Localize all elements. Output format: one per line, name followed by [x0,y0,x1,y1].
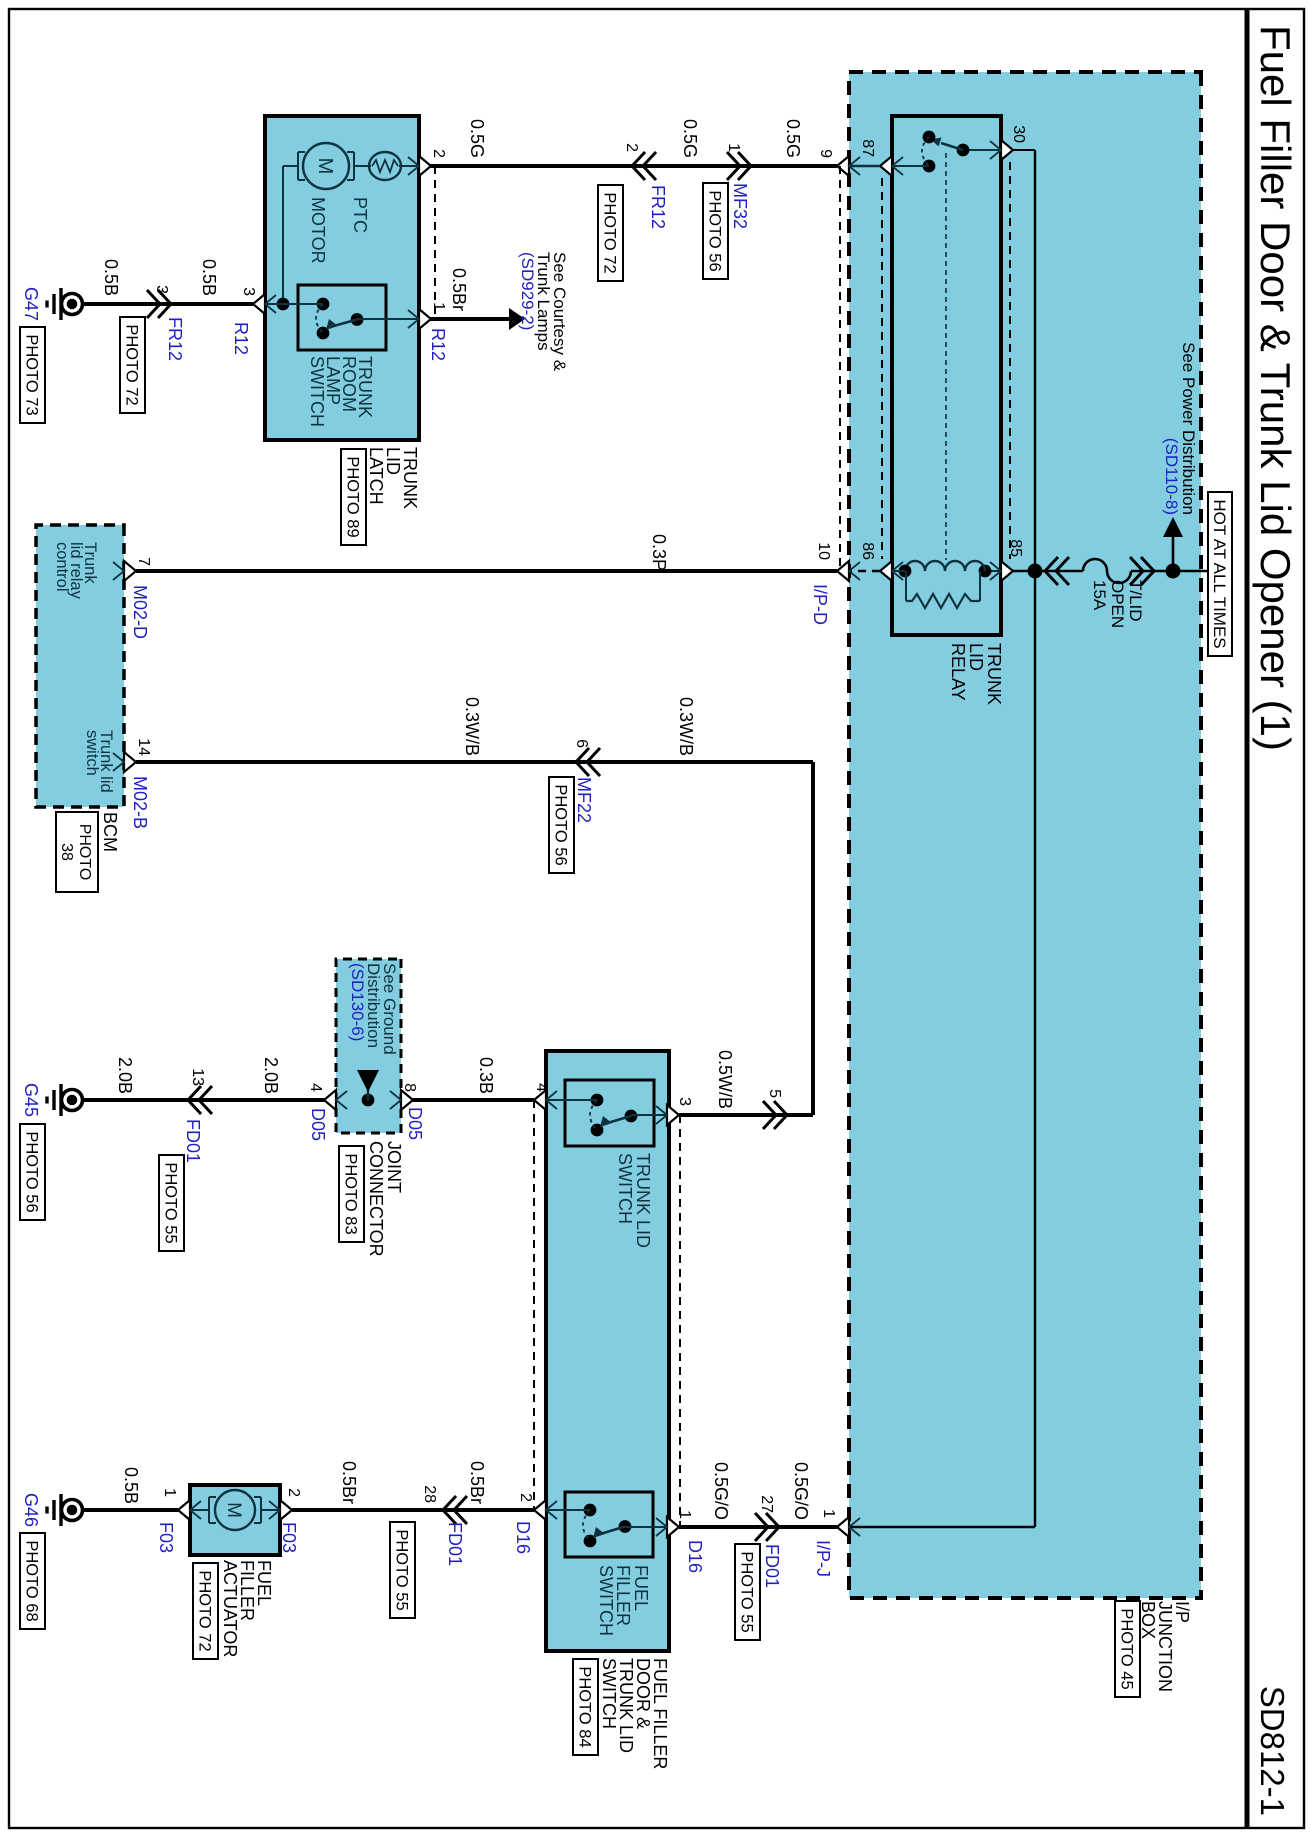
connector link R12 pins 2-1 [434,166,436,319]
svg-text:control: control [53,542,71,592]
svg-text:14: 14 [135,738,152,756]
svg-text:0.5B: 0.5B [199,259,219,296]
svg-text:FD01: FD01 [183,1119,203,1163]
wire relay pin 86 to junction box pin 10 (dashed) [849,570,880,572]
svg-text:13: 13 [189,1068,206,1086]
svg-text:7: 7 [135,557,152,566]
see power distribution arrow [1172,531,1175,571]
svg-text:LATCH: LATCH [366,447,386,505]
trunk lid latch box [265,116,419,440]
svg-text:G45: G45 [21,1083,41,1117]
photo ref PHOTO 56 [549,777,574,873]
svg-text:27: 27 [758,1495,775,1513]
wire 0.5Br (switch pin 2 to fuel filler actuator pin 2) [292,1508,534,1512]
svg-text:TRUNK: TRUNK [984,643,1004,705]
svg-text:0.5G/O: 0.5G/O [791,1462,811,1520]
svg-text:RELAY: RELAY [948,643,968,701]
svg-text:0.5W/B: 0.5W/B [715,1050,735,1109]
wire 0.5G (pin 9 to latch pin 2) [430,164,837,168]
svg-text:OPEN: OPEN [1108,580,1127,628]
svg-text:6: 6 [573,739,590,748]
svg-text:0.5B: 0.5B [101,259,121,296]
svg-text:4: 4 [533,1083,550,1092]
BCM pin 7 [124,561,136,581]
trunk lid relay box [892,116,1001,635]
photo ref PHOTO 55 [735,1544,760,1640]
ground G47 [81,302,84,306]
svg-text:D16: D16 [685,1540,705,1573]
trunk lid switch inner box [565,1080,654,1146]
svg-text:PHOTO 72: PHOTO 72 [601,192,619,273]
wire 0.5G/O (I/P-J pin 1 to fuel filler switch pin 1) [679,1525,837,1529]
switch pin 3 [667,1105,679,1125]
connector FR12 pin 2 [632,152,645,180]
photo ref PHOTO 72 [193,1563,218,1659]
svg-text:I/P-D: I/P-D [810,584,830,625]
svg-text:(SD110-8): (SD110-8) [1162,438,1181,515]
svg-text:2: 2 [517,1493,534,1502]
svg-text:1: 1 [676,1510,693,1519]
svg-text:CONNECTOR: CONNECTOR [366,1141,386,1257]
I/P junction box [849,72,1201,1598]
switch pin 4 [534,1090,546,1110]
svg-text:0.5Br: 0.5Br [467,1461,487,1504]
svg-text:M02-B: M02-B [130,776,150,829]
relay pin 85 [1001,561,1013,581]
joint connector pin 8 [401,1090,413,1110]
photo ref PHOTO 68 [20,1533,45,1629]
svg-text:4: 4 [307,1083,324,1092]
svg-text:TRUNK LID: TRUNK LID [633,1153,653,1248]
svg-text:0.5G: 0.5G [783,119,803,158]
svg-text:PHOTO 56: PHOTO 56 [706,190,724,271]
svg-text:FR12: FR12 [648,185,668,229]
svg-text:5: 5 [766,1089,783,1098]
svg-text:PHOTO 56: PHOTO 56 [552,784,570,865]
actuator pin 2 [280,1500,292,1520]
svg-text:2: 2 [623,143,640,152]
svg-text:SD812-1: SD812-1 [1254,1686,1291,1816]
svg-text:MOTOR: MOTOR [308,197,328,264]
svg-text:2: 2 [430,149,447,158]
svg-text:FUEL: FUEL [631,1565,651,1611]
svg-text:10: 10 [815,542,832,560]
svg-text:PHOTO 56: PHOTO 56 [23,1131,41,1212]
svg-text:MF32: MF32 [730,183,750,229]
svg-text:PHOTO 55: PHOTO 55 [738,1551,756,1632]
svg-text:T/LID: T/LID [1126,580,1145,622]
relay coil [985,570,1001,572]
latch pin 1 [419,309,431,329]
latch pin 3 [253,294,265,314]
photo ref PHOTO 56 [20,1124,45,1220]
svg-text:(SD929-2): (SD929-2) [518,252,537,330]
svg-text:F03: F03 [279,1522,299,1553]
svg-text:PHOTO 72: PHOTO 72 [196,1570,214,1651]
photo ref PHOTO 55 [159,1155,184,1251]
node: pin30 branch junction [1028,564,1043,579]
photo ref PHOTO 56 [703,183,728,279]
svg-text:BCM: BCM [100,812,120,852]
switch pin 1 [667,1517,679,1537]
BCM pin 14 [124,752,136,772]
svg-text:3: 3 [240,287,257,296]
svg-text:28: 28 [421,1485,438,1503]
svg-text:2: 2 [285,1488,302,1497]
svg-text:8: 8 [401,1083,418,1092]
connector link relay pins 30-85 [1009,162,1011,559]
photo ref PHOTO 38 [56,812,98,892]
svg-text:SWITCH: SWITCH [599,1658,619,1729]
wire 0.5B to ground G47 [84,302,253,306]
photo ref PHOTO 72 [598,185,623,281]
svg-text:3: 3 [153,285,170,294]
junction box pin 1 (I/P-J) [837,1517,849,1537]
photo ref PHOTO 55 [390,1522,415,1618]
joint connector D05 box [336,959,401,1133]
svg-text:M: M [223,1502,244,1518]
svg-text:I/P-J: I/P-J [813,1540,833,1577]
actuator motor M [261,1509,280,1511]
relay pin 86 [880,561,892,581]
svg-text:D05: D05 [308,1108,328,1141]
wire relay pin 87 to junction box pin 9 [849,165,880,167]
connector FD01 pin 28 [443,1496,456,1524]
BCM box [36,525,124,807]
node: fused B+ junction [1166,564,1181,579]
connector MF22 pin 6 [576,748,589,776]
svg-text:SWITCH: SWITCH [615,1153,635,1224]
svg-text:PHOTO 84: PHOTO 84 [576,1666,594,1747]
internal wire: fused B+ to relay pin 30 and I/P-J pin 1 [1034,150,1036,1527]
wire motor to pin 3 node [283,165,298,167]
wire 0.5Br to courtesy lamps [430,317,511,321]
svg-text:M02-D: M02-D [130,585,150,639]
svg-text:M: M [314,158,336,175]
svg-text:SWITCH: SWITCH [307,356,327,427]
wire 0.5B to ground G46 [84,1508,178,1512]
svg-text:1: 1 [430,302,447,311]
node: motor/switch junction [277,298,290,311]
svg-text:1: 1 [161,1488,178,1497]
photo ref PHOTO 83 [339,1146,364,1242]
trunk lid switch contacts [591,1094,604,1107]
svg-text:SWITCH: SWITCH [596,1565,616,1636]
ground distribution tap arrow [362,1094,375,1107]
fuse T/LID OPEN 15A [1141,557,1154,585]
arrow to courtesy lamps [509,308,525,330]
trunk room lamp switch contacts [317,298,330,311]
wire 0.3P (I/P-D pin 10 to BCM pin 7) [136,569,837,573]
wire 0.3W/B (BCM pin 14 to trunk lid switch pin 3) [136,760,813,764]
svg-text:9: 9 [817,149,834,158]
svg-text:D16: D16 [513,1521,533,1554]
svg-text:Fuel Filler Door & Trunk Lid O: Fuel Filler Door & Trunk Lid Opener (1) [1252,25,1299,751]
svg-text:0.5G: 0.5G [467,119,487,158]
label HOT AT ALL TIMES [1208,492,1232,656]
svg-text:PHOTO 73: PHOTO 73 [23,334,41,415]
ground G46 [81,1508,84,1512]
svg-text:1: 1 [820,1509,837,1518]
svg-text:0.5G: 0.5G [680,119,700,158]
fuel filler switch contacts [584,1504,597,1517]
svg-text:LID: LID [966,643,986,671]
photo ref PHOTO 72 [120,317,145,413]
fuel filler door and trunk lid switch box [546,1051,669,1651]
svg-text:30: 30 [1010,125,1027,143]
svg-text:86: 86 [859,542,876,560]
svg-text:FD01: FD01 [445,1522,465,1566]
connector link pins 9-10 [839,166,841,571]
photo ref PHOTO 45 [1115,1601,1140,1697]
svg-text:G47: G47 [21,287,41,321]
svg-text:0.5G/O: 0.5G/O [711,1462,731,1520]
power rail wire (B+) [1131,570,1209,573]
trunk room lamp switch box [298,285,386,350]
svg-text:FR12: FR12 [165,317,185,361]
svg-text:PHOTO 68: PHOTO 68 [23,1540,41,1621]
svg-text:PHOTO: PHOTO [76,824,93,881]
photo ref PHOTO 84 [573,1659,598,1755]
svg-text:PHOTO 89: PHOTO 89 [344,456,362,537]
connector link D16 pins 4-2 [533,1100,535,1510]
junction box pin 9 [837,156,849,176]
connector FD01 pin 13 [188,1086,201,1114]
svg-text:PHOTO 45: PHOTO 45 [1118,1608,1136,1689]
svg-text:0.3B: 0.3B [476,1057,496,1094]
svg-text:2.0B: 2.0B [261,1057,281,1094]
svg-text:R12: R12 [428,328,448,361]
connector FR12 pin 3 [158,290,171,318]
wire 0.3B/2.0B to ground G45 [84,1098,534,1102]
svg-text:D05: D05 [405,1107,425,1140]
ground G45 [81,1098,84,1102]
svg-text:2.0B: 2.0B [115,1057,135,1094]
svg-text:1: 1 [725,143,742,152]
relay mechanical link [945,153,947,560]
svg-text:PTC: PTC [350,197,370,233]
svg-text:R12: R12 [231,322,251,355]
connector link relay pins 87-86 [881,178,883,559]
relay contact [963,149,1001,151]
joint connector pin 4 [324,1090,336,1110]
svg-text:ACTUATOR: ACTUATOR [220,1560,240,1657]
svg-text:0.3W/B: 0.3W/B [676,697,696,756]
relay resistor (parallel to coil) [979,571,981,601]
svg-text:15A: 15A [1090,580,1109,611]
fuel filler switch inner box [565,1492,653,1557]
svg-text:G46: G46 [21,1493,41,1527]
svg-text:0.3W/B: 0.3W/B [462,697,482,756]
svg-text:MF22: MF22 [574,777,594,823]
svg-text:0.5B: 0.5B [121,1467,141,1504]
svg-text:F03: F03 [156,1522,176,1553]
junction box pin 10 (I/P-D) [837,561,849,581]
svg-text:PHOTO 55: PHOTO 55 [393,1529,411,1610]
connector FD01 pin 27 [766,1513,779,1541]
svg-text:0.3P: 0.3P [649,534,669,571]
connector MF32 pin 1 [738,152,751,180]
connector link D16 pins 3-1 [679,1115,681,1527]
connector pin 5 [774,1101,787,1129]
svg-text:(SD130-6): (SD130-6) [348,963,367,1041]
svg-text:87: 87 [859,139,876,157]
relay pin 30 [1001,140,1013,160]
svg-text:0.5Br: 0.5Br [339,1461,359,1504]
svg-text:FD01: FD01 [762,1544,782,1588]
svg-text:HOT AT ALL TIMES: HOT AT ALL TIMES [1210,499,1229,648]
relay pin 87 [880,156,892,176]
svg-text:0.5Br: 0.5Br [449,268,469,311]
svg-text:PHOTO 55: PHOTO 55 [162,1162,180,1243]
svg-text:PHOTO 83: PHOTO 83 [342,1153,360,1234]
photo ref PHOTO 89 [341,449,366,545]
svg-text:38: 38 [58,843,75,861]
svg-text:3: 3 [676,1097,693,1106]
switch pin 2 [534,1500,546,1520]
actuator pin 1 [178,1500,190,1520]
svg-text:JOINT: JOINT [384,1141,404,1193]
PTC thermistor [399,165,419,167]
latch pin 2 [419,156,431,176]
photo ref PHOTO 73 [20,327,45,423]
motor M [354,165,371,167]
fuel filler actuator box [190,1485,280,1555]
title separator [1245,9,1250,1828]
svg-text:switch: switch [83,730,101,776]
svg-text:PHOTO 72: PHOTO 72 [123,324,141,405]
